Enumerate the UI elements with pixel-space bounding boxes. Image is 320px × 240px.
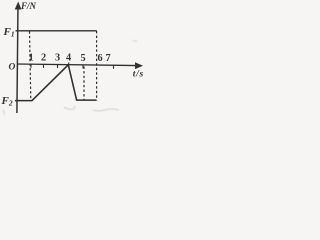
svg-text:7: 7: [106, 53, 111, 64]
svg-text:1: 1: [29, 53, 34, 64]
svg-text:3: 3: [55, 53, 60, 64]
svg-text:F/N: F/N: [20, 1, 37, 11]
svg-text:t/s: t/s: [133, 70, 144, 80]
svg-text:5: 5: [81, 53, 86, 64]
svg-text:2: 2: [41, 53, 46, 64]
svg-text:6: 6: [98, 53, 103, 64]
svg-text:O: O: [9, 62, 16, 72]
svg-text:4: 4: [66, 53, 71, 64]
